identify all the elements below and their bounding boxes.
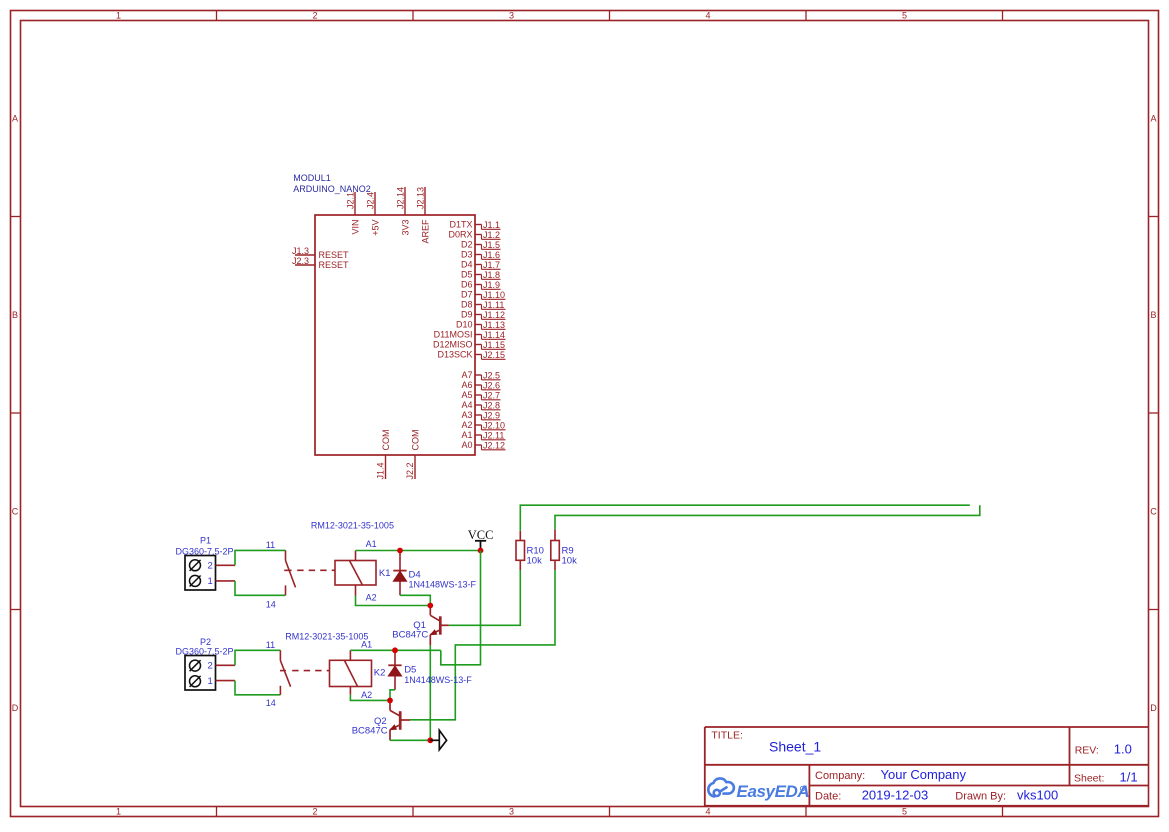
relay K1 switch contact — [285, 550, 287, 560]
svg-text:MODUL1: MODUL1 — [293, 173, 331, 183]
svg-text:J1.6: J1.6 — [483, 250, 500, 260]
svg-text:A5: A5 — [461, 390, 472, 400]
svg-text:COM: COM — [381, 430, 391, 451]
pin D9 / net J1.12 — [475, 314, 482, 316]
pin COM / net J2.2 — [414, 455, 416, 479]
svg-text:J1.2: J1.2 — [483, 230, 500, 240]
junction D4 top — [397, 548, 403, 554]
K2 actuation dashed link — [292, 670, 329, 672]
svg-text:A1: A1 — [366, 539, 377, 549]
svg-text:4: 4 — [705, 807, 710, 817]
svg-text:J2.8: J2.8 — [483, 400, 500, 410]
svg-text:Company:: Company: — [815, 770, 865, 782]
svg-text:J1.12: J1.12 — [483, 310, 505, 320]
svg-text:J1.9: J1.9 — [483, 280, 500, 290]
wire K1.A1 to VCC — [356, 550, 481, 552]
svg-text:5: 5 — [902, 807, 907, 817]
junction K2.A2 node — [387, 698, 393, 704]
svg-text:2: 2 — [208, 560, 213, 571]
svg-text:5: 5 — [902, 11, 907, 21]
wire R10 bottom to Q1 base — [449, 570, 521, 625]
diode D4 1N4148WS-13-F — [399, 551, 401, 571]
wire R9 bottom to Q2 base — [410, 570, 555, 720]
wire P2.2 to switch top (net 11) — [235, 650, 280, 665]
resistor R9 10k — [554, 529, 556, 540]
pin 3V3 / net J2.14 — [404, 187, 406, 215]
pin A2 / net J2.10 — [475, 424, 482, 426]
svg-text:14: 14 — [266, 599, 276, 609]
svg-text:BC847C: BC847C — [352, 726, 388, 737]
wire Q2 emitter to gnd — [390, 739, 430, 741]
svg-text:K2: K2 — [374, 668, 386, 679]
svg-text:D3: D3 — [461, 250, 473, 260]
junction K1.A2 node — [427, 603, 433, 609]
svg-text:J1.11: J1.11 — [483, 300, 504, 310]
pin D13SCK / net J2.15 — [475, 354, 482, 356]
svg-text:2019-12-03: 2019-12-03 — [862, 788, 929, 803]
svg-text:B: B — [12, 310, 18, 320]
svg-text:RESET: RESET — [319, 260, 350, 270]
svg-text:1N4148WS-13-F: 1N4148WS-13-F — [404, 675, 472, 685]
svg-text:J2.3: J2.3 — [292, 256, 309, 266]
svg-text:D: D — [12, 703, 19, 713]
wire P2.1 to switch bottom (net 14) — [235, 681, 280, 695]
svg-text:A2: A2 — [366, 592, 377, 602]
wire Q1 emitter down to gnd rail — [429, 645, 431, 740]
pin D7 / net J1.10 — [475, 294, 482, 296]
svg-text:J2.13: J2.13 — [415, 187, 425, 209]
wire K1.A2 elbow — [356, 596, 431, 606]
svg-text:A: A — [12, 114, 18, 124]
pin A6 / net J2.6 — [475, 384, 482, 386]
svg-text:D5: D5 — [461, 270, 473, 280]
svg-text:10k: 10k — [562, 556, 578, 567]
svg-text:J2.12: J2.12 — [483, 440, 505, 450]
svg-text:D7: D7 — [461, 290, 473, 300]
svg-text:D10: D10 — [456, 320, 473, 330]
svg-text:J1.5: J1.5 — [483, 240, 500, 250]
svg-text:11: 11 — [266, 540, 275, 550]
pin D8 / net J1.11 — [475, 304, 482, 306]
svg-text:3: 3 — [509, 11, 514, 21]
svg-text:VIN: VIN — [350, 220, 360, 235]
svg-text:RESET: RESET — [319, 250, 350, 260]
svg-text:TITLE:: TITLE: — [711, 730, 743, 742]
svg-text:J2.7: J2.7 — [483, 390, 500, 400]
pin A1 / net J2.11 — [475, 434, 482, 436]
title block — [705, 726, 1149, 728]
svg-text:2: 2 — [208, 660, 213, 671]
diode D5 1N4148WS-13-F — [394, 650, 396, 665]
pin RESET / net J1.3 — [295, 254, 315, 256]
svg-text:11: 11 — [266, 640, 275, 650]
svg-text:3V3: 3V3 — [400, 220, 410, 236]
pin D10 / net J1.13 — [475, 324, 482, 326]
svg-text:A2: A2 — [461, 420, 472, 430]
svg-text:Sheet_1: Sheet_1 — [769, 739, 821, 755]
svg-text:1: 1 — [208, 576, 213, 587]
svg-text:B: B — [1150, 310, 1156, 320]
svg-text:J2.9: J2.9 — [483, 410, 500, 420]
pin D3 / net J1.6 — [475, 254, 482, 256]
pin A0 / net J2.12 — [475, 444, 482, 446]
svg-text:J2.1: J2.1 — [345, 192, 355, 209]
svg-text:P2: P2 — [200, 637, 211, 647]
svg-text:COM: COM — [410, 430, 420, 451]
svg-text:A0: A0 — [461, 440, 472, 450]
P2 pin leads — [216, 664, 236, 666]
wire P1.2 to switch top (net 11) — [235, 550, 286, 565]
svg-text:J2.15: J2.15 — [483, 350, 505, 360]
svg-text:RM12-3021-35-1005: RM12-3021-35-1005 — [311, 521, 394, 531]
wire P1.1 to switch bottom (net 14) — [235, 581, 286, 595]
svg-text:J2.6: J2.6 — [483, 380, 500, 390]
pin D4 / net J1.7 — [475, 264, 482, 266]
svg-text:J2.2: J2.2 — [405, 462, 415, 479]
svg-text:J2.4: J2.4 — [365, 192, 375, 209]
svg-text:A: A — [1150, 114, 1156, 124]
svg-text:4: 4 — [705, 11, 710, 21]
svg-text:A4: A4 — [461, 400, 472, 410]
svg-text:Your Company: Your Company — [881, 767, 967, 782]
junction VCC — [478, 548, 484, 554]
svg-text:D12MISO: D12MISO — [433, 340, 473, 350]
pin D12MISO / net J1.15 — [475, 344, 482, 346]
svg-text:D1TX: D1TX — [449, 220, 472, 230]
svg-text:J2.14: J2.14 — [395, 187, 405, 209]
svg-text:EasyEDA: EasyEDA — [737, 782, 810, 801]
svg-text:C: C — [1150, 507, 1157, 517]
svg-text:D2: D2 — [461, 240, 473, 250]
wire R10 top stub net — [520, 505, 970, 531]
pin A5 / net J2.7 — [475, 394, 482, 396]
svg-text:A1: A1 — [461, 430, 472, 440]
svg-text:BC847C: BC847C — [392, 629, 428, 640]
relay K2 switch contact — [279, 650, 281, 660]
svg-text:D0RX: D0RX — [448, 230, 472, 240]
svg-text:J2.11: J2.11 — [483, 430, 504, 440]
svg-text:1: 1 — [116, 11, 121, 21]
pin D2 / net J1.5 — [475, 244, 482, 246]
pin D5 / net J1.8 — [475, 274, 482, 276]
pin D1TX / net J1.1 — [475, 224, 482, 226]
svg-text:D: D — [1150, 703, 1157, 713]
svg-text:A6: A6 — [461, 380, 472, 390]
svg-text:P1: P1 — [200, 536, 211, 546]
pin D6 / net J1.9 — [475, 284, 482, 286]
svg-text:D4: D4 — [461, 260, 473, 270]
svg-text:A2: A2 — [361, 690, 372, 700]
wire K2.A1 — [350, 649, 440, 651]
EasyEDA logo — [708, 778, 734, 796]
svg-text:D6: D6 — [461, 280, 473, 290]
wire K2.A2 elbow — [350, 695, 390, 701]
svg-text:D11MOSI: D11MOSI — [434, 330, 473, 340]
pin D0RX / net J1.2 — [475, 234, 482, 236]
svg-text:ARDUINO_NANO2: ARDUINO_NANO2 — [293, 184, 371, 194]
junction gnd node — [427, 737, 433, 743]
svg-text:J2.5: J2.5 — [483, 370, 500, 380]
svg-text:14: 14 — [266, 698, 276, 708]
svg-text:REV:: REV: — [1075, 744, 1099, 756]
svg-text:AREF: AREF — [420, 219, 430, 244]
pin A4 / net J2.8 — [475, 404, 482, 406]
pin A3 / net J2.9 — [475, 414, 482, 416]
svg-text:Drawn By:: Drawn By: — [955, 791, 1006, 803]
K2 pin A1 — [349, 650, 351, 660]
svg-text:vks100: vks100 — [1017, 788, 1058, 803]
wire D5 bottom jog — [390, 690, 395, 701]
svg-text:Date:: Date: — [815, 791, 841, 803]
K1 pin A2 — [355, 585, 357, 596]
svg-text:D13SCK: D13SCK — [437, 350, 472, 360]
svg-text:1: 1 — [116, 807, 121, 817]
svg-text:J1.7: J1.7 — [483, 260, 500, 270]
pin VIN / net J2.1 — [354, 192, 356, 215]
K1 pin A1 — [355, 551, 357, 561]
svg-text:2: 2 — [312, 11, 317, 21]
junction D5 top — [392, 647, 398, 653]
svg-text:D9: D9 — [461, 310, 473, 320]
pin A7 / net J2.5 — [475, 374, 482, 376]
svg-text:Sheet:: Sheet: — [1074, 773, 1104, 785]
wire R9 top stub net — [555, 505, 980, 529]
svg-text:C: C — [12, 507, 19, 517]
resistor R10 10k — [519, 531, 521, 541]
svg-text:1/1: 1/1 — [1120, 770, 1138, 785]
pin RESET / net J2.3 — [295, 264, 315, 266]
pin AREF / net J2.13 — [424, 187, 426, 215]
ground symbol — [430, 739, 439, 741]
pin COM / net J1.4 — [385, 455, 387, 479]
svg-text:K1: K1 — [379, 568, 391, 579]
svg-text:RM12-3021-35-1005: RM12-3021-35-1005 — [285, 632, 368, 642]
svg-text:J1.14: J1.14 — [483, 330, 505, 340]
svg-text:3: 3 — [509, 807, 514, 817]
wire D4 bottom to node — [400, 595, 430, 605]
svg-text:+5V: +5V — [370, 220, 380, 236]
svg-text:J1.15: J1.15 — [483, 340, 505, 350]
pin +5V / net J2.4 — [374, 192, 376, 215]
svg-text:1.0: 1.0 — [1114, 741, 1132, 756]
P1 pin leads — [216, 564, 236, 566]
svg-text:A7: A7 — [461, 370, 472, 380]
svg-text:J1.8: J1.8 — [483, 270, 500, 280]
svg-text:2: 2 — [312, 807, 317, 817]
svg-text:J1.3: J1.3 — [292, 246, 309, 256]
svg-text:J1.4: J1.4 — [375, 462, 385, 479]
svg-text:J1.1: J1.1 — [483, 220, 500, 230]
K1 actuation dashed link — [297, 569, 335, 571]
svg-text:J2.10: J2.10 — [483, 420, 505, 430]
svg-text:10k: 10k — [527, 556, 543, 567]
svg-text:J1.13: J1.13 — [483, 320, 505, 330]
K2 pin A2 — [349, 687, 351, 695]
pin D11MOSI / net J1.14 — [475, 334, 482, 336]
svg-text:D8: D8 — [461, 300, 473, 310]
VCC rail down to K2.A1 — [441, 551, 481, 665]
svg-text:D5: D5 — [404, 665, 416, 676]
svg-text:J1.10: J1.10 — [483, 290, 505, 300]
svg-text:1: 1 — [208, 676, 213, 687]
svg-text:A1: A1 — [361, 640, 372, 650]
svg-text:A3: A3 — [461, 410, 472, 420]
svg-text:1N4148WS-13-F: 1N4148WS-13-F — [409, 580, 477, 590]
